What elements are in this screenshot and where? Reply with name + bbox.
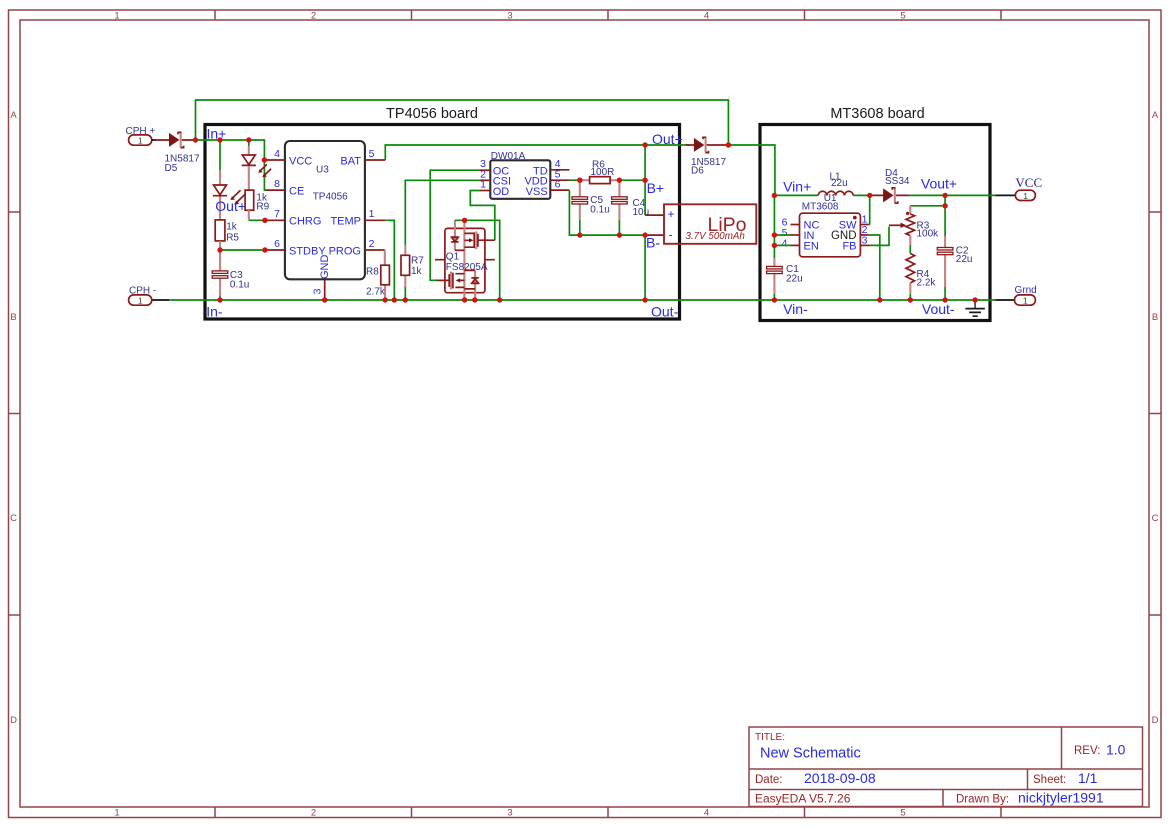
- svg-text:3: 3: [507, 807, 512, 818]
- U3 pin 7 CHRG: [265, 219, 285, 221]
- wire Vout+ drop and R3 top tee: [910, 195, 945, 236]
- LED1 (to Out+): [213, 140, 245, 220]
- svg-text:D5: D5: [165, 163, 178, 174]
- svg-text:GND: GND: [319, 255, 331, 280]
- wire L1 to D4: [853, 194, 870, 196]
- capacitor C4 10u: [612, 180, 650, 235]
- node junction (645.1,145): [642, 142, 647, 147]
- frame column ticks bottom: [215, 807, 1001, 818]
- U1 pin 5 IN: [791, 234, 800, 236]
- svg-text:TP4056 board: TP4056 board: [386, 106, 478, 122]
- node junction (910.3,300): [908, 297, 913, 302]
- resistor R4 2.2k: [906, 254, 936, 301]
- IC DW01A: [490, 151, 550, 199]
- U3 pin 3 GND: [324, 279, 326, 300]
- node junction (264.4,160): [262, 157, 267, 162]
- ground symbol: [965, 300, 984, 316]
- svg-text:2: 2: [369, 238, 375, 250]
- wire Vin+ rail to L1: [774, 194, 818, 196]
- svg-text:5: 5: [900, 10, 905, 21]
- svg-text:D: D: [10, 715, 17, 726]
- node junction (474.8,300): [472, 297, 477, 302]
- svg-text:R9: R9: [256, 202, 269, 213]
- capacitor C5 0.1u: [572, 180, 610, 235]
- port CPH+: [126, 126, 156, 146]
- transistor Q1 FS8205A dual mosfet: [435, 220, 495, 300]
- node junction (264.9,220.3): [262, 218, 267, 223]
- wire D6 to MT3608 board: [726, 144, 728, 146]
- svg-text:22u: 22u: [831, 178, 848, 189]
- svg-text:REV:: REV:: [1074, 745, 1100, 757]
- capacitor C2 22u: [937, 236, 972, 300]
- svg-text:B: B: [1152, 312, 1158, 323]
- port CPH-: [129, 286, 157, 306]
- DW01A pin 6 VSS: [550, 189, 569, 191]
- svg-text:Sheet:: Sheet:: [1033, 774, 1066, 786]
- svg-text:Grnd: Grnd: [1015, 285, 1037, 296]
- svg-text:4: 4: [274, 148, 280, 160]
- svg-text:B+: B+: [647, 180, 665, 196]
- TP4056 board outline: [205, 125, 680, 320]
- svg-text:R7: R7: [411, 255, 424, 266]
- title block border: [749, 727, 1143, 807]
- node junction (220,140): [217, 137, 222, 142]
- svg-text:1: 1: [1023, 296, 1028, 306]
- U3 pin 8 CE: [265, 189, 285, 191]
- node junction (645.1,180.2): [642, 178, 647, 183]
- svg-text:5: 5: [369, 148, 375, 160]
- node junction (945.1,300): [942, 297, 947, 302]
- frame row ticks right: [1149, 212, 1161, 615]
- wire FB to divider: [870, 227, 889, 246]
- svg-text:1: 1: [369, 208, 375, 220]
- svg-text:TEMP: TEMP: [330, 216, 361, 228]
- port VCC: [996, 175, 1043, 201]
- wire CPH+ to D5: [152, 139, 156, 141]
- svg-text:Drawn By:: Drawn By:: [956, 794, 1009, 806]
- svg-text:D: D: [1152, 715, 1159, 726]
- svg-text:A: A: [10, 110, 17, 121]
- svg-text:In+: In+: [207, 125, 227, 141]
- U1 pin 1 SW: [860, 224, 869, 226]
- wire Q1 top common: [455, 220, 500, 300]
- svg-text:PROG: PROG: [329, 245, 361, 257]
- resistor R9 1k: [245, 190, 270, 220]
- resistor R8 2.7k: [366, 250, 389, 300]
- svg-text:0.1u: 0.1u: [590, 205, 609, 216]
- svg-text:R8: R8: [366, 267, 379, 278]
- DW01A pin 1 OD: [480, 190, 490, 192]
- svg-text:1: 1: [138, 136, 143, 146]
- svg-text:EN: EN: [804, 241, 819, 253]
- node junction (975.1,300): [972, 297, 977, 302]
- svg-text:2: 2: [311, 10, 316, 21]
- node junction (774.4,235): [772, 232, 777, 237]
- svg-text:5: 5: [900, 807, 905, 818]
- DW01A pin 2 CSI: [480, 179, 490, 181]
- node junction (774.4,195.4): [772, 193, 777, 198]
- svg-text:-: -: [669, 228, 673, 242]
- U1 pin 2 GND: [860, 234, 869, 236]
- svg-text:1: 1: [1023, 191, 1028, 201]
- wire B- drop to bottom rail: [644, 235, 646, 300]
- svg-text:nickjtyler1991: nickjtyler1991: [1018, 790, 1104, 806]
- node junction (869.7,195.4): [867, 193, 872, 198]
- node junction (619.4,180.2): [617, 178, 622, 183]
- svg-text:3: 3: [507, 10, 512, 21]
- svg-text:Vout-: Vout-: [922, 301, 955, 317]
- svg-text:100R: 100R: [591, 167, 615, 178]
- node junction (879.8,300): [877, 297, 882, 302]
- MT3608 board outline: [760, 125, 990, 321]
- svg-text:New Schematic: New Schematic: [760, 746, 861, 762]
- svg-text:3.7V 500mAh: 3.7V 500mAh: [686, 231, 745, 242]
- svg-text:+: +: [668, 207, 675, 221]
- node junction (728.4,145): [726, 142, 731, 147]
- wire D4 to Vout+ and VCC port: [909, 194, 995, 196]
- node junction (220,250): [217, 247, 222, 252]
- svg-text:SS34: SS34: [885, 176, 910, 187]
- svg-text:OD: OD: [493, 186, 510, 198]
- svg-text:8: 8: [274, 178, 280, 190]
- svg-text:MT3608 board: MT3608 board: [830, 106, 924, 122]
- svg-text:C: C: [10, 513, 17, 524]
- wire VSS down and B- row: [569, 190, 645, 235]
- svg-text:10u: 10u: [633, 207, 650, 218]
- svg-text:FS8205A: FS8205A: [446, 262, 488, 273]
- node junction (945.1,205.8): [942, 203, 947, 208]
- port Grnd: [996, 285, 1037, 305]
- svg-text:1: 1: [138, 296, 143, 306]
- wire In+ rail: [196, 140, 266, 190]
- wire R9 to CHRG: [249, 219, 265, 221]
- U3 pin 2 PROG: [365, 249, 385, 251]
- svg-text:22u: 22u: [786, 273, 803, 284]
- U3 pin 5 BAT: [365, 159, 385, 161]
- svg-text:4: 4: [782, 238, 788, 250]
- frame row ticks left: [9, 212, 21, 615]
- svg-text:6: 6: [555, 179, 561, 191]
- svg-text:DW01A: DW01A: [491, 151, 526, 162]
- svg-text:Vin-: Vin-: [783, 301, 808, 317]
- svg-text:R5: R5: [226, 232, 239, 243]
- U1 pin 6 NC: [791, 224, 800, 226]
- node junction (464.6,220.3): [462, 218, 467, 223]
- svg-text:3: 3: [312, 288, 324, 294]
- svg-text:U3: U3: [316, 164, 329, 175]
- node junction (220,300): [217, 297, 222, 302]
- svg-text:B: B: [10, 312, 16, 323]
- battery LiPo: [645, 204, 756, 244]
- node junction (774.4,245.4): [772, 243, 777, 248]
- node junction (645.1,235.1): [642, 232, 647, 237]
- svg-text:B-: B-: [646, 234, 660, 250]
- node junction (579.8,235.1): [577, 232, 582, 237]
- diode D6 1N5817: [686, 137, 726, 176]
- resistor R6 100R: [580, 160, 645, 184]
- bottom rail wire CPH- to Grnd: [152, 299, 169, 301]
- svg-text:2018-09-08: 2018-09-08: [804, 770, 876, 786]
- DW01A pin 3 OC: [480, 169, 490, 171]
- svg-text:EasyEDA V5.7.26: EasyEDA V5.7.26: [755, 792, 851, 806]
- node junction (324.7,300): [322, 297, 327, 302]
- node junction (645.1,300): [642, 297, 647, 302]
- wire TEMP drop: [385, 220, 394, 300]
- svg-text:VCC: VCC: [1015, 175, 1042, 190]
- node junction (579.8,180.2): [577, 178, 582, 183]
- potentiometer R3 100k: [889, 206, 939, 240]
- svg-text:Vout+: Vout+: [921, 176, 957, 192]
- U3 pin 6 STDBY: [265, 249, 285, 251]
- diode D4 SS34: [870, 168, 910, 203]
- svg-text:100k: 100k: [917, 229, 940, 240]
- node junction (945.1,195.4): [942, 193, 947, 198]
- wire SW up to rail: [869, 195, 871, 224]
- IC U3 TP4056: [285, 141, 365, 279]
- node junction (464.6,300): [462, 297, 467, 302]
- svg-text:1: 1: [114, 10, 119, 21]
- capacitor C1 22u: [767, 195, 803, 300]
- svg-text:22u: 22u: [956, 254, 973, 265]
- node junction (619.4,235.1): [617, 232, 622, 237]
- node junction (385.1,300): [382, 297, 387, 302]
- node junction (195.5,140): [193, 137, 198, 142]
- svg-text:2.7k: 2.7k: [366, 286, 386, 297]
- svg-text:2.2k: 2.2k: [917, 277, 937, 288]
- svg-text:A: A: [1152, 110, 1159, 121]
- node junction (248.8,140): [246, 137, 251, 142]
- svg-text:MT3608: MT3608: [802, 202, 839, 213]
- wire IN to input cap: [774, 234, 790, 236]
- svg-text:BAT: BAT: [340, 155, 361, 167]
- svg-text:0.1u: 0.1u: [230, 279, 249, 290]
- wire GND pin down: [870, 235, 880, 300]
- node junction (394.3,300): [392, 297, 397, 302]
- svg-text:TP4056: TP4056: [313, 191, 348, 202]
- U3 pin 1 TEMP: [365, 219, 385, 221]
- svg-text:1k: 1k: [411, 266, 423, 277]
- capacitor C3 0.1u: [212, 250, 249, 300]
- DW01A pin 4 TD: [550, 169, 569, 171]
- svg-text:CPH -: CPH -: [129, 286, 156, 297]
- svg-text:3: 3: [862, 235, 868, 247]
- svg-text:Out-: Out-: [651, 303, 679, 319]
- svg-text:2: 2: [311, 807, 316, 818]
- DW01A pin 5 VDD: [550, 179, 569, 181]
- frame column ticks top: [215, 10, 1001, 20]
- svg-text:1.0: 1.0: [1106, 742, 1126, 758]
- resistor R5 1k: [215, 220, 239, 250]
- wire OC net: [430, 170, 480, 280]
- wire top jumper Out+ to Vin+: [196, 100, 729, 145]
- inductor L1 22u: [818, 171, 853, 195]
- svg-text:Vin+: Vin+: [783, 179, 811, 195]
- node junction (499.7,300): [497, 297, 502, 302]
- svg-text:Date:: Date:: [755, 774, 783, 786]
- svg-text:CE: CE: [289, 186, 304, 198]
- IC U1 MT3608: [800, 193, 861, 257]
- wire B+ drop to LiPo +: [644, 145, 646, 215]
- svg-text:1/1: 1/1: [1078, 770, 1098, 786]
- U1 pin 3 FB: [860, 244, 869, 246]
- U1 pin 4 EN: [791, 244, 800, 246]
- U3 pin 4 VCC: [265, 159, 285, 161]
- diode D5 1N5817: [156, 132, 200, 174]
- svg-text:Out+: Out+: [215, 198, 246, 214]
- wire R3 to R4: [909, 236, 911, 245]
- svg-text:7: 7: [274, 208, 280, 220]
- resistor R7 1k: [401, 180, 480, 300]
- svg-text:In-: In-: [206, 303, 223, 319]
- svg-text:4: 4: [704, 10, 709, 21]
- svg-text:FB: FB: [842, 241, 856, 253]
- svg-text:6: 6: [274, 238, 280, 250]
- svg-text:C: C: [1152, 513, 1159, 524]
- wire VDD to R6: [569, 179, 579, 181]
- svg-text:1: 1: [480, 179, 486, 191]
- svg-text:D6: D6: [691, 165, 704, 176]
- wire EN to input cap: [774, 244, 790, 246]
- svg-text:VSS: VSS: [526, 186, 548, 198]
- wire STDBY row: [220, 249, 265, 251]
- svg-text:4: 4: [704, 807, 709, 818]
- LED2 (charge indicator): [242, 140, 271, 190]
- node junction (264.9,250): [262, 247, 267, 252]
- svg-text:CHRG: CHRG: [289, 216, 321, 228]
- node junction (405.3,300): [403, 297, 408, 302]
- svg-text:Out+: Out+: [652, 131, 683, 147]
- wire BAT to Out+ rail: [385, 145, 686, 160]
- svg-text:VCC: VCC: [289, 155, 312, 167]
- svg-text:1k: 1k: [226, 222, 238, 233]
- wire OD net: [470, 191, 495, 241]
- node junction (774.4,300): [772, 297, 777, 302]
- svg-text:1: 1: [114, 807, 119, 818]
- svg-text:TITLE:: TITLE:: [755, 732, 785, 743]
